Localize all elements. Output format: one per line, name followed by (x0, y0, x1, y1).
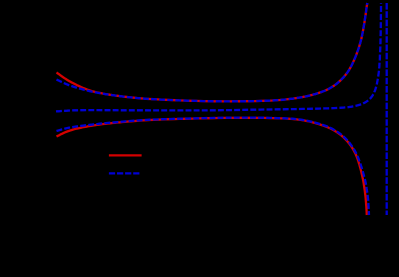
blue approx middle branch (56, 3, 381, 111)
blue vertical asymptote branch (386, 3, 388, 215)
blue approx lower branch (57, 118, 370, 215)
legend blue sample (109, 172, 139, 174)
red exact lower branch (57, 118, 367, 215)
blue approx upper branch (57, 3, 368, 101)
red exact upper branch (57, 3, 368, 101)
legend red sample (109, 154, 142, 156)
